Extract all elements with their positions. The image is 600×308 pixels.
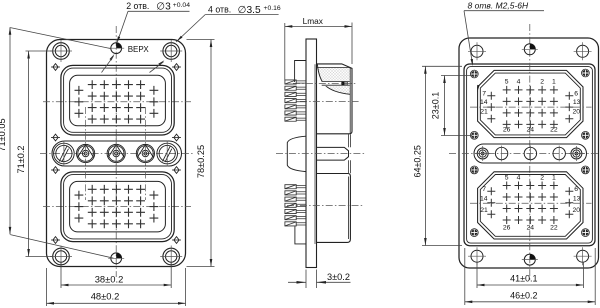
upper insert block on wire side (section) (295, 61, 306, 83)
svg-text:+0.16: +0.16 (264, 5, 281, 12)
upper insert centerline (front) (43, 101, 191, 103)
svg-text:1: 1 (552, 78, 556, 85)
svg-text:2: 2 (540, 78, 544, 85)
contact socket in section (322, 81, 350, 86)
threaded hole M2.5 #8 (rear) (582, 229, 590, 237)
lower solder pins (section) (285, 185, 306, 226)
upper solder pins (section) (285, 80, 306, 121)
mounting hole Ø3.5 #1 (rear) (468, 42, 486, 60)
svg-text:2 отв.: 2 отв. (126, 1, 149, 11)
coax row housing (rear) (474, 144, 587, 163)
coax/power contact 2 (rear) (495, 146, 507, 162)
svg-text:46±0.2: 46±0.2 (510, 290, 537, 300)
coax/power contact 1 (front) (54, 141, 75, 167)
rivet 2 (front) (172, 64, 181, 71)
callout 4 отв. Ø3.5 +0.16 (150, 5, 281, 73)
svg-text:26: 26 (503, 224, 511, 231)
mounting hole Ø3.5 #2 (rear) (574, 42, 592, 60)
lower insert pin-field outline (front) (70, 181, 166, 232)
svg-text:38±0.2: 38±0.2 (95, 273, 124, 284)
hole Ø3 orientation datum #1 (rear) (522, 44, 538, 55)
dimension 71±0.2 (between mounting holes) (16, 51, 53, 257)
callout 8 отв. М2,5-6Н (464, 1, 544, 92)
svg-text:41±0.1: 41±0.1 (510, 274, 537, 284)
dimension 64±0.25 (shell height, rear) (412, 66, 462, 245)
svg-text:21: 21 (480, 108, 488, 115)
flange plate (section) (306, 39, 317, 268)
rivet 3 (front) (51, 134, 60, 141)
dimension 48±0.2 (body width) (47, 268, 186, 306)
svg-text:22: 22 (550, 127, 558, 134)
svg-text:21: 21 (480, 207, 488, 214)
svg-text:+0.04: +0.04 (173, 2, 190, 9)
threaded hole M2.5 #3 (rear) (470, 131, 478, 139)
coax/power contact 2 (front) (77, 107, 95, 200)
dimension Lmax (285, 16, 352, 81)
mounting hole Ø3.5 #3 (rear) (468, 247, 486, 265)
svg-text:24: 24 (527, 224, 535, 231)
mounting hole Ø3.5 #4 (rear) (574, 247, 592, 265)
connector body (front view) (47, 40, 186, 267)
svg-text:14: 14 (480, 195, 488, 202)
pin numbers upper insert (rear) (480, 78, 581, 133)
coax/power contact 1 (rear) (475, 146, 490, 161)
dimension 46±0.2 (shell width, rear) (465, 248, 595, 305)
upper pin contacts (rear) (487, 86, 573, 128)
coax contact row housing (front) (52, 141, 182, 166)
svg-text:8 отв. М2,5-6Н: 8 отв. М2,5-6Н (468, 1, 530, 11)
svg-text:5: 5 (505, 175, 509, 182)
svg-text:1: 1 (552, 175, 556, 182)
dimension 41±0.1 (hole spacing, rear) (477, 262, 583, 288)
hole Ø3 orientation datum #1 (front) (108, 43, 124, 54)
rear vertical centerline (529, 24, 531, 281)
hole Ø3 orientation datum #2 (front) (108, 253, 124, 264)
svg-text:20: 20 (573, 207, 581, 214)
svg-text:5: 5 (505, 78, 509, 85)
mounting hole Ø3.5 #4 (front) (160, 246, 182, 268)
lower insert (front) pin contacts (75, 185, 159, 228)
coax/power contact 3 (front) (107, 135, 125, 172)
threaded hole M2.5 #5 (rear) (470, 166, 478, 174)
coax/power contact 4 (front) (136, 107, 154, 200)
mounting hole Ø3.5 #1 (front) (50, 40, 72, 62)
lower insert centerline (rear) (470, 202, 592, 204)
svg-text:7: 7 (482, 186, 486, 193)
vertical centerline (front view) (115, 26, 117, 277)
hole Ø3 orientation datum #2 (rear) (522, 254, 538, 265)
insulator rim line (section) (317, 67, 350, 69)
dimension 71±0.05 (between Ø3 holes) (0, 27, 114, 258)
coax/power contact 3 (rear) (524, 146, 536, 162)
lower insert seal outline (front) (61, 172, 174, 242)
threaded hole M2.5 #1 (rear) (470, 70, 478, 78)
horizontal centerline through coax row (front view) (40, 153, 194, 155)
upper insert centerline (rear) (470, 106, 592, 108)
svg-text:6: 6 (574, 186, 578, 193)
svg-text:6: 6 (574, 90, 578, 97)
svg-text:26: 26 (503, 127, 511, 134)
mounting hole Ø3.5 #3 (front) (50, 246, 72, 268)
section centerline contact axis top (293, 82, 357, 84)
callout 2 отв. Ø3 +0.04 (102, 1, 191, 73)
coax/power contact 5 (rear) (569, 146, 584, 161)
rivet 4 (front) (172, 134, 181, 141)
pin numbers lower insert (rear) (480, 175, 581, 232)
svg-text:2: 2 (540, 175, 544, 182)
dimension 23±0.1 (insert screw spacing, rear) (430, 76, 472, 136)
rivet 6 (front) (172, 167, 181, 174)
svg-text:13: 13 (573, 99, 581, 106)
coax/power contact 4 (rear) (553, 146, 565, 162)
svg-text:78±0.25: 78±0.25 (196, 145, 206, 178)
svg-text:14: 14 (480, 99, 488, 106)
svg-text:71±0.2: 71±0.2 (16, 145, 26, 173)
coax contact bushing on wire side (section) (287, 136, 306, 171)
threaded hole M2.5 #2 (rear) (582, 69, 590, 77)
svg-text:ВЕРХ: ВЕРХ (128, 45, 150, 54)
svg-text:3±0.2: 3±0.2 (327, 272, 350, 282)
svg-text:20: 20 (573, 108, 581, 115)
upper insert seal outline (front) (61, 65, 174, 135)
svg-text:4: 4 (517, 175, 521, 182)
svg-text:64±0.25: 64±0.25 (412, 145, 422, 177)
rivet 8 (front) (172, 237, 181, 244)
threaded hole M2.5 #6 (rear) (582, 166, 590, 174)
upper insert octagon (rear) (478, 70, 583, 137)
lower insert block on wire side (section) (295, 226, 306, 244)
rear horizontal centerline coax row (449, 153, 599, 155)
svg-text:7: 7 (482, 90, 486, 97)
dimension 3±0.2 (flange thickness) (288, 270, 351, 289)
threaded hole M2.5 #4 (rear) (582, 131, 590, 139)
lower insert octagon (rear) (478, 172, 583, 239)
hatched insulator (section) (318, 68, 350, 95)
svg-text:23±0.1: 23±0.1 (430, 92, 440, 119)
coax/power contact 5 (front) (157, 141, 178, 167)
dimension 78±0.25 (body height) (187, 40, 215, 267)
rivet 7 (front) (51, 237, 60, 244)
svg-text:4 отв.: 4 отв. (208, 5, 231, 15)
svg-text:71±0.05: 71±0.05 (0, 118, 7, 151)
svg-text:Lmax: Lmax (303, 16, 324, 26)
section centerline lower insert (287, 205, 364, 207)
svg-text:24: 24 (527, 127, 535, 134)
lower pin contacts (rear) (487, 182, 573, 225)
connector body (section) (317, 64, 353, 243)
rear shell panel (464, 64, 595, 246)
section centerline coax axis (276, 153, 366, 155)
svg-text:13: 13 (573, 195, 581, 202)
section centerline upper insert (300, 101, 360, 103)
mounting hole Ø3.5 #2 (front) (160, 40, 182, 62)
svg-text:48±0.2: 48±0.2 (91, 291, 120, 302)
gasket line between plate and body (section) (314, 64, 316, 244)
svg-text:22: 22 (550, 224, 558, 231)
rivet 5 (front) (51, 167, 60, 174)
rivet 1 (front) (51, 64, 60, 71)
svg-text:4: 4 (517, 78, 521, 85)
svg-text:∅3: ∅3 (156, 1, 171, 12)
upper insert pin-field outline (front) (70, 75, 166, 126)
lower insert centerline (front) (43, 206, 191, 208)
dimension 38±0.2 (hole spacing) (61, 262, 171, 288)
left view: connector front (47, 40, 186, 267)
upper insert (front) pin contacts (75, 80, 159, 123)
threaded hole M2.5 #7 (rear) (470, 229, 478, 237)
rear view body (459, 38, 599, 268)
